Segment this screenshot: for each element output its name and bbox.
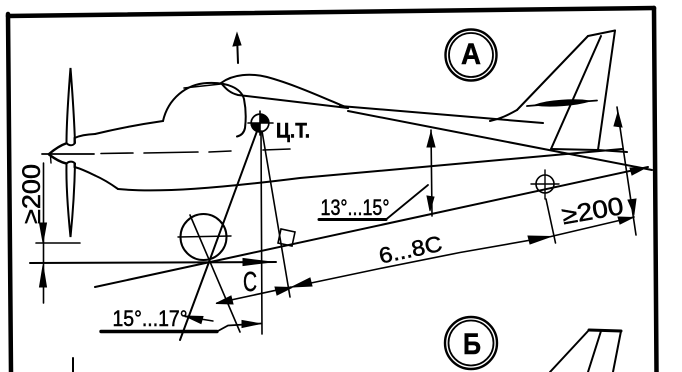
svg-text:13°...15°: 13°...15°	[321, 195, 390, 220]
stabilizer airfoil lens	[535, 100, 590, 106]
rudder hinge line	[551, 36, 601, 149]
left dim arrow up	[40, 266, 47, 288]
fin leading edge	[517, 36, 588, 110]
right >=200 extension line	[617, 107, 636, 235]
circled A	[446, 30, 497, 81]
CG plumb vertical	[261, 131, 262, 334]
wheel center marks	[178, 236, 231, 237]
spinner axis line	[42, 153, 94, 155]
fuselage nose top	[95, 121, 163, 134]
ground line	[30, 262, 276, 263]
takeoff line right arrow	[630, 168, 646, 176]
wing airfoil top	[221, 75, 348, 108]
6...8C dimension line	[292, 217, 634, 287]
right angle box	[278, 229, 295, 246]
CG symbol	[248, 111, 273, 135]
right ext arrow down	[628, 199, 636, 214]
C dim left arrow	[216, 296, 233, 304]
figure B fin trailing edge	[613, 331, 621, 372]
figure B prop blade stub	[72, 358, 74, 372]
figure B fin inner line	[588, 331, 601, 372]
tail reference circle symbol	[531, 170, 559, 199]
cowl front bottom	[75, 164, 96, 176]
propeller upper blade	[67, 68, 76, 145]
6...8C left arrow	[292, 278, 312, 287]
left dim arrow down	[40, 223, 47, 243]
CG perpendicular to takeoff line	[262, 131, 290, 297]
fin fillet	[490, 110, 517, 121]
svg-text:Ц.Т.: Ц.Т.	[276, 120, 310, 143]
15...17 underline	[101, 330, 217, 333]
frame border right	[654, 8, 657, 372]
chain right arrow	[618, 217, 633, 224]
fuselage belly line	[118, 149, 622, 190]
takeoff rotation line	[95, 167, 648, 287]
spinner bottom edge	[49, 155, 66, 164]
tail circle extension line	[546, 199, 556, 243]
svg-text:≥200: ≥200	[18, 164, 46, 224]
svg-text:А: А	[461, 38, 481, 71]
15...17 arrow to plumb	[242, 321, 260, 328]
cowl front top	[75, 134, 96, 143]
fin top	[588, 31, 615, 37]
15...17 leader	[217, 324, 261, 332]
propeller lower blade	[66, 162, 75, 237]
svg-text:C: C	[243, 266, 257, 297]
fuselage nose bottom	[95, 176, 118, 190]
spinner tip tick	[50, 156, 53, 163]
up arrow (direction mark)	[237, 35, 238, 63]
attitude dim line vertical	[431, 130, 432, 216]
C dimension line	[217, 287, 291, 303]
svg-text:Б: Б	[463, 328, 481, 361]
wing chord extension to tail	[348, 111, 652, 170]
frame border top	[8, 8, 654, 16]
spinner top edge	[49, 143, 67, 154]
15...17 arrow on steep line	[185, 316, 203, 324]
main wheel	[181, 214, 227, 260]
fin trailing edge	[598, 31, 615, 151]
attitude dim arrow down	[427, 196, 434, 211]
attitude dim arrow up	[427, 132, 435, 147]
13...15 underline	[319, 218, 386, 221]
6...8C right arrow	[528, 236, 551, 244]
prop tip extension tick	[36, 242, 80, 244]
CG to wheel contact line	[180, 123, 260, 340]
canopy	[163, 83, 246, 137]
15...17 arrow stem	[185, 317, 213, 322]
13...15 leader	[386, 185, 428, 220]
wing airfoil bottom	[221, 83, 348, 108]
right ext arrow up	[614, 112, 622, 127]
C dim right arrow	[275, 287, 292, 295]
left dimension line	[43, 163, 45, 303]
frame border left	[8, 14, 11, 372]
ground line right arrow	[243, 259, 272, 266]
wheel spoke line	[190, 215, 240, 332]
circled B	[445, 317, 497, 369]
svg-text:15°...17°: 15°...17°	[113, 306, 188, 331]
tail cone lines	[551, 149, 627, 152]
figure B fin leading edge	[550, 330, 589, 372]
figure B fin top	[589, 330, 621, 331]
fuselage axis dashed	[101, 149, 290, 154]
stabilizer chord line	[527, 101, 597, 107]
rear fuselage top line	[340, 106, 543, 123]
wing root chord stub	[184, 84, 221, 88]
